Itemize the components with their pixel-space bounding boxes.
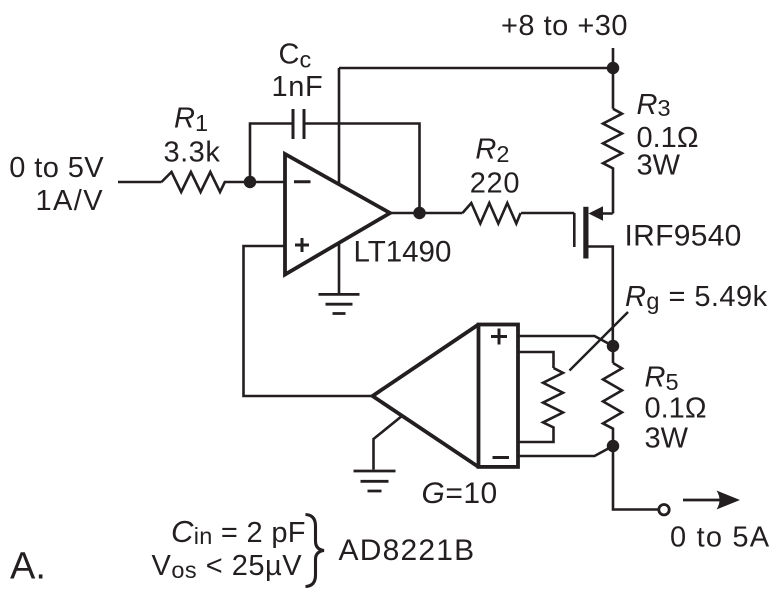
- svg-text:0.1Ω: 0.1Ω: [645, 392, 707, 424]
- svg-text:+8 to +30: +8 to +30: [501, 10, 628, 42]
- svg-text:R1: R1: [174, 103, 208, 137]
- svg-text:R5: R5: [645, 362, 679, 396]
- svg-text:0 to 5A: 0 to 5A: [670, 522, 770, 554]
- svg-text:R3: R3: [637, 89, 671, 121]
- svg-text:3.3k: 3.3k: [164, 136, 221, 168]
- svg-text:A.: A.: [10, 546, 46, 588]
- svg-text:1A/V: 1A/V: [36, 185, 104, 217]
- svg-text:G=10: G=10: [422, 477, 498, 510]
- svg-text:3W: 3W: [637, 150, 681, 182]
- svg-text:LT1490: LT1490: [354, 236, 452, 269]
- svg-text:R2: R2: [475, 134, 509, 168]
- svg-text:Rg = 5.49k: Rg = 5.49k: [625, 281, 768, 314]
- svg-text:1nF: 1nF: [272, 71, 324, 103]
- svg-text:Cc: Cc: [279, 39, 312, 73]
- svg-text:220: 220: [470, 168, 521, 200]
- svg-text:IRF9540: IRF9540: [625, 220, 742, 253]
- svg-text:0 to 5V: 0 to 5V: [9, 152, 104, 184]
- svg-text:Vos < 25µV: Vos < 25µV: [152, 550, 303, 583]
- svg-text:Cin = 2 pF: Cin = 2 pF: [171, 514, 306, 549]
- svg-text:AD8221B: AD8221B: [339, 534, 476, 567]
- svg-text:3W: 3W: [645, 422, 689, 454]
